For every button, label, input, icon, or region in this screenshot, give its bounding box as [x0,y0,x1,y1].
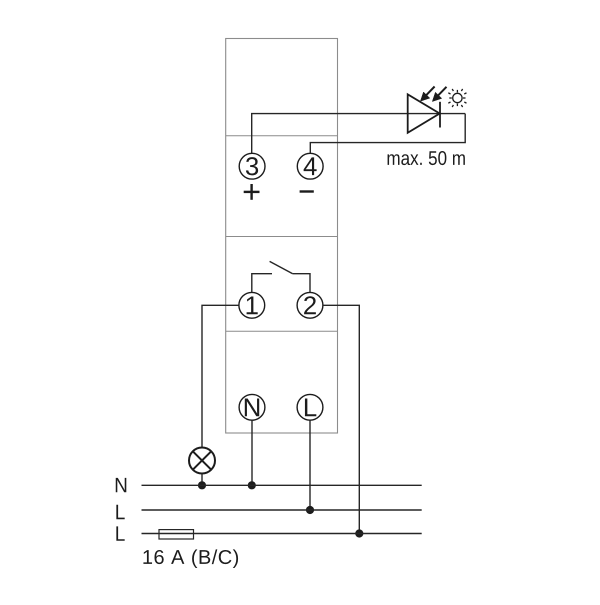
bottom L line [142,533,422,535]
N line [142,484,422,486]
section divider top [226,135,338,137]
wire terminal N to N line [251,420,253,485]
device outline [226,39,338,434]
minus label [300,190,314,192]
label 16 A (B/C) [143,549,238,568]
fuse wire through [159,533,194,535]
section divider middle [226,236,338,238]
label N [116,478,127,492]
light arrow 1 [420,87,434,102]
terminal L [297,394,323,420]
junction dot lamp on N line [198,481,206,489]
photodiode D1 [408,94,440,133]
wire terminal L to middle L line [309,420,311,510]
terminal 1 [239,292,265,318]
label L bottom [116,526,124,540]
switch S1 [252,261,310,292]
fuse F1 [159,530,194,539]
wire terminal 1 to lamp [202,305,239,447]
section divider bottom [226,330,338,332]
label max. 50 m [388,151,465,165]
junction dot terminal L on middle L line [306,506,314,514]
terminal 4 [297,153,323,179]
terminal 3 [239,153,265,179]
wire lamp to N line [201,474,203,486]
wire terminal 3 to photocell plus [252,114,466,154]
terminal 2 [297,292,323,318]
label L middle [116,505,124,519]
terminal N [239,394,265,420]
junction dot terminal 2 wire on bottom L line [355,529,363,537]
sun symbol [448,89,466,107]
plus label [244,184,260,200]
lamp E1 [189,448,215,474]
junction dot terminal N on N line [248,481,256,489]
middle L line [142,509,422,511]
wire terminal 4 to photocell minus [310,114,465,154]
wire terminal 2 to bottom L line [323,305,359,533]
light arrow 2 [432,87,446,102]
